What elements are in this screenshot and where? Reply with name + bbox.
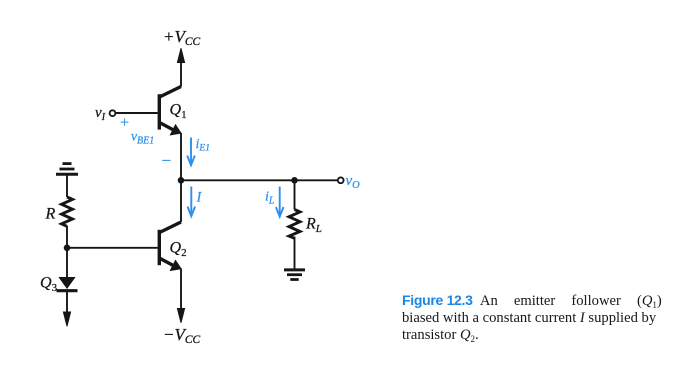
wire: Q2 emitter vertical down to -Vcc arrow xyxy=(180,269,182,312)
label + (blue) xyxy=(120,115,129,132)
svg-text:−VCC: −VCC xyxy=(163,325,201,346)
svg-text:Q1: Q1 xyxy=(170,102,187,122)
current arrow iL (blue) xyxy=(276,187,284,217)
node A: R / Q2 base / Q3 junction xyxy=(64,245,71,252)
svg-text:+: + xyxy=(120,115,129,132)
label R xyxy=(45,206,56,223)
wire: RL bottom to ground xyxy=(294,237,296,270)
svg-text:vBE1: vBE1 xyxy=(131,129,154,147)
svg-text:+VCC: +VCC xyxy=(163,27,201,48)
label RL xyxy=(305,216,322,236)
arrow below diode Q3 xyxy=(63,312,70,326)
label vI xyxy=(95,105,106,123)
wire: node A to Q2 base xyxy=(67,247,158,249)
wire: vI input to Q1 base xyxy=(116,112,158,114)
wire: node A down to diode Q3 xyxy=(66,248,68,277)
label Q2 xyxy=(170,240,187,260)
current arrow I (blue) xyxy=(188,187,196,217)
svg-text:Q3: Q3 xyxy=(40,275,58,295)
wire: output node to vO terminal xyxy=(181,179,338,181)
current arrow iE1 (blue) xyxy=(187,138,195,166)
diode Q3 xyxy=(57,277,78,291)
svg-text:−: − xyxy=(162,151,172,170)
figure caption xyxy=(402,292,668,344)
label vO (blue) xyxy=(346,173,361,191)
label iL (blue) xyxy=(265,190,275,207)
label iE1 (blue) xyxy=(196,137,210,154)
node: emitter/output junction xyxy=(178,177,185,184)
ground (top left, inverted) xyxy=(56,164,78,175)
-Vcc power arrow xyxy=(177,309,184,323)
svg-text:I: I xyxy=(196,190,203,206)
+Vcc power arrow xyxy=(177,48,184,62)
label -Vcc xyxy=(163,325,201,346)
svg-text:vI: vI xyxy=(95,105,106,123)
wire: RL branch from output wire xyxy=(294,180,296,209)
label +Vcc xyxy=(163,27,201,48)
wire: diode Q3 down to arrow xyxy=(66,292,68,316)
svg-text:Q2: Q2 xyxy=(170,240,187,260)
label Q1 xyxy=(170,102,187,122)
wire: top ground down to resistor R xyxy=(66,176,68,198)
transistor Q1 xyxy=(158,87,181,135)
svg-text:vO: vO xyxy=(346,173,361,191)
svg-text:RL: RL xyxy=(305,216,322,236)
output terminal circle xyxy=(338,177,344,183)
label vBE1 (blue) xyxy=(131,129,154,147)
transistor Q2 xyxy=(158,222,181,270)
svg-text:iL: iL xyxy=(265,190,275,207)
wire: Q1 collector to +Vcc arrow xyxy=(180,60,182,87)
svg-text:iE1: iE1 xyxy=(196,137,210,154)
svg-text:R: R xyxy=(45,206,56,223)
wire: resistor R to node A xyxy=(66,226,68,248)
label - (blue) xyxy=(162,151,172,170)
label Q3 xyxy=(40,275,58,295)
wire: node down to Q2 collector bend xyxy=(180,180,182,222)
input terminal circle xyxy=(110,110,116,116)
label I (blue) xyxy=(196,190,203,206)
ground (below RL) xyxy=(284,270,305,280)
wire: Q1 emitter vertical down to node xyxy=(180,133,182,181)
resistor RL xyxy=(289,210,300,239)
resistor R xyxy=(62,197,73,226)
node: RL junction xyxy=(291,177,298,184)
